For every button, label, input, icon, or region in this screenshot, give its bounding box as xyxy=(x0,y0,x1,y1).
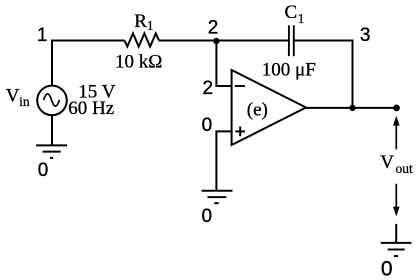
svg-text:3: 3 xyxy=(360,25,371,46)
svg-text:2: 2 xyxy=(208,18,219,39)
svg-text:R: R xyxy=(134,11,147,32)
svg-text:V: V xyxy=(380,152,394,173)
svg-text:C: C xyxy=(285,2,298,23)
svg-text:0: 0 xyxy=(38,160,49,181)
svg-text:in: in xyxy=(19,94,30,109)
svg-text:2: 2 xyxy=(203,78,214,99)
svg-text:1: 1 xyxy=(298,11,305,26)
svg-text:(e): (e) xyxy=(247,100,268,121)
svg-text:1: 1 xyxy=(37,25,48,46)
svg-text:0: 0 xyxy=(202,206,213,227)
svg-text:0: 0 xyxy=(202,115,213,136)
svg-text:60 Hz: 60 Hz xyxy=(68,98,114,119)
svg-text:1: 1 xyxy=(147,18,154,33)
svg-text:0: 0 xyxy=(381,258,393,280)
svg-text:out: out xyxy=(396,161,414,176)
svg-text:100 μF: 100 μF xyxy=(262,59,316,80)
svg-text:10 kΩ: 10 kΩ xyxy=(115,52,162,73)
svg-text:V: V xyxy=(6,86,20,107)
